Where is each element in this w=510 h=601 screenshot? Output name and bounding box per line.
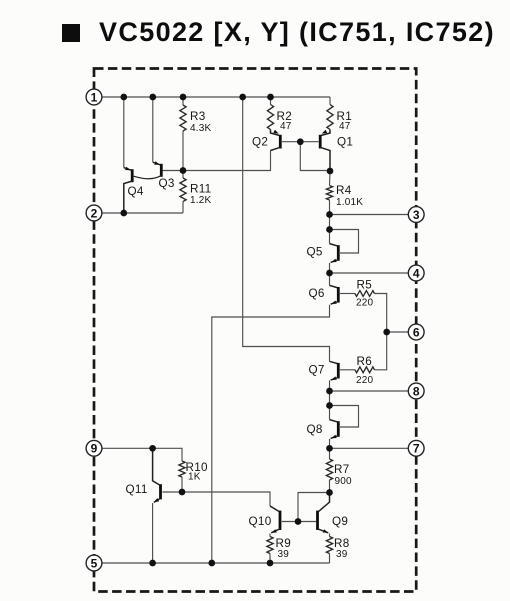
node VCC/Q3 emitter bbox=[149, 94, 156, 101]
wire VCC rail from pin 1 to R1 top bbox=[101, 96, 330, 98]
svg-text:Q4: Q4 bbox=[128, 185, 144, 198]
pin 8 bbox=[408, 383, 424, 399]
svg-text:Q3: Q3 bbox=[159, 177, 175, 190]
label Q7 bbox=[309, 364, 325, 377]
resistor R9 bbox=[267, 537, 273, 564]
node Q1 collector-base/R4 top bbox=[327, 168, 334, 175]
svg-text:3: 3 bbox=[413, 208, 420, 222]
svg-text:R3: R3 bbox=[190, 110, 206, 123]
transistor Q11 bbox=[153, 448, 161, 563]
resistor R2 bbox=[267, 97, 273, 130]
pin 5 bbox=[86, 555, 102, 571]
pin 7 bbox=[408, 440, 424, 456]
wire pin4 node to Q6 bbox=[329, 273, 331, 285]
pin 9 bbox=[86, 440, 102, 456]
node GND / Q6 emitter drop bbox=[208, 560, 215, 567]
wire VCC drop to Q7 collector bbox=[243, 97, 330, 361]
node VCC/Q4 emitter bbox=[120, 94, 127, 101]
label R4 1.01K bbox=[336, 184, 363, 208]
label R7 900 bbox=[334, 463, 352, 487]
wire Q5 collector-base loop bbox=[330, 230, 359, 254]
resistor R10 bbox=[179, 461, 185, 492]
svg-text:Q8: Q8 bbox=[307, 423, 323, 436]
wire R5/R6 junction to pin 6 bbox=[387, 331, 408, 333]
IC package boundary (dashed) bbox=[94, 69, 416, 592]
resistor R8 bbox=[326, 537, 332, 564]
node pin 6 / R5-R6 junction bbox=[383, 329, 390, 336]
svg-text:4: 4 bbox=[413, 266, 420, 280]
title VC5022 bbox=[62, 17, 495, 48]
svg-text:Q10: Q10 bbox=[249, 515, 272, 528]
resistor R11 bbox=[180, 171, 186, 214]
node GND / Q11 emitter bbox=[149, 560, 156, 567]
node VCC/R3 top bbox=[180, 94, 187, 101]
node A (R3/R11/Q3 base/Q2 collector) bbox=[180, 167, 187, 174]
wire node pin3 to Q5 bbox=[329, 215, 331, 244]
svg-text:R7: R7 bbox=[334, 463, 350, 476]
label R9 39 bbox=[276, 537, 292, 560]
wire R7 bottom to Q9/Q10 base rail bbox=[298, 493, 330, 522]
label Q6 bbox=[309, 287, 325, 300]
transistor Q6 bbox=[330, 285, 339, 304]
resistor R4 bbox=[326, 171, 332, 215]
label Q2 bbox=[252, 135, 268, 148]
svg-text:220: 220 bbox=[356, 298, 374, 309]
wire R5 right end down to pin6 node bbox=[375, 294, 387, 333]
wire Q2 collector to node A bbox=[183, 150, 271, 170]
wire Q1 base to node bbox=[300, 141, 318, 143]
wire pin 9 rail to R10 top bbox=[101, 448, 182, 461]
resistor R3 bbox=[180, 97, 186, 171]
node Q9-Q10 bases bbox=[295, 518, 302, 525]
label R3 4.3K bbox=[190, 110, 212, 134]
svg-text:47: 47 bbox=[339, 121, 351, 132]
wire Q3 base to node A bbox=[163, 170, 183, 172]
svg-text:R9: R9 bbox=[276, 537, 292, 550]
resistor R7 bbox=[326, 448, 332, 492]
svg-text:Q9: Q9 bbox=[332, 515, 348, 528]
svg-text:220: 220 bbox=[356, 375, 374, 386]
label Q1 bbox=[337, 135, 353, 148]
transistor Q8 bbox=[330, 420, 339, 449]
label Q11 bbox=[126, 483, 148, 496]
wire Q9/Q10 base rail bbox=[282, 521, 316, 523]
label Q3 bbox=[159, 177, 175, 190]
wire Q2 base to node bbox=[282, 141, 300, 143]
transistor Q3 bbox=[134, 97, 162, 179]
label Q9 bbox=[332, 515, 348, 528]
wire pin6 node down to R6 bbox=[375, 332, 387, 370]
svg-text:1.01K: 1.01K bbox=[336, 197, 363, 208]
transistor Q7 bbox=[330, 361, 339, 391]
svg-text:R5: R5 bbox=[357, 278, 373, 291]
svg-text:9: 9 bbox=[91, 442, 98, 456]
label Q4 bbox=[128, 185, 144, 198]
transistor Q1 bbox=[320, 130, 330, 172]
wire ground rail pin 5 to R8 bottom bbox=[101, 562, 330, 564]
node R10 bottom / Q11 base bbox=[179, 489, 186, 496]
label R2 47 bbox=[277, 110, 293, 132]
svg-text:39: 39 bbox=[336, 549, 348, 560]
resistor R5 bbox=[355, 291, 375, 297]
svg-text:2: 2 bbox=[91, 206, 98, 220]
wire Q8 emitter node to pin 7 bbox=[330, 447, 409, 449]
transistor Q4 bbox=[124, 97, 132, 213]
pin 6 bbox=[408, 324, 424, 340]
svg-text:Q6: Q6 bbox=[309, 287, 325, 300]
label Q10 bbox=[249, 515, 272, 528]
svg-text:8: 8 bbox=[413, 384, 420, 398]
label R6 220 bbox=[356, 355, 374, 386]
label R8 39 bbox=[334, 537, 350, 560]
resistor R6 bbox=[355, 367, 375, 373]
svg-text:R6: R6 bbox=[357, 355, 373, 368]
node VCC/R2 top bbox=[267, 94, 274, 101]
label R10 1K bbox=[186, 461, 209, 483]
svg-text:1: 1 bbox=[91, 90, 98, 104]
node Q5 collector-base bbox=[326, 226, 333, 233]
svg-text:R4: R4 bbox=[336, 184, 352, 197]
svg-text:R11: R11 bbox=[190, 182, 211, 195]
transistor Q9 bbox=[318, 493, 330, 537]
pin 3 bbox=[408, 207, 424, 223]
transistor Q10 bbox=[270, 506, 280, 537]
pin 4 bbox=[408, 265, 424, 281]
node Q1-Q2 bases bbox=[297, 138, 304, 145]
label Q8 bbox=[307, 423, 323, 436]
node VCC/Q7 drop bbox=[239, 94, 246, 101]
svg-text:5: 5 bbox=[91, 556, 98, 570]
wire Q6 base to R5 bbox=[340, 293, 355, 295]
svg-text:39: 39 bbox=[278, 549, 290, 560]
svg-text:900: 900 bbox=[335, 476, 353, 487]
label Q5 bbox=[307, 246, 323, 259]
pin 1 bbox=[86, 89, 102, 105]
svg-text:Q11: Q11 bbox=[126, 483, 148, 496]
wire node R4 bottom to pin 3 bbox=[330, 214, 409, 216]
node pin 9 / Q11 collector bbox=[149, 445, 156, 452]
resistor R1 bbox=[327, 97, 333, 130]
label R11 1.2K bbox=[190, 182, 212, 206]
node pin 8 / Q7 emitter bbox=[326, 388, 333, 395]
wire Q7 base to R6 bbox=[340, 369, 355, 371]
svg-text:7: 7 bbox=[413, 442, 420, 456]
node pin 3 / R4 bottom bbox=[326, 211, 333, 218]
wire Q5 emitter node to pin 4 bbox=[330, 272, 409, 274]
svg-text:1K: 1K bbox=[188, 472, 201, 483]
wire Q2/Q1 base node to Q1 collector bbox=[300, 142, 330, 171]
wire Q8 collector-base loop bbox=[330, 406, 359, 428]
label R1 47 bbox=[337, 110, 353, 132]
svg-text:Q5: Q5 bbox=[307, 246, 323, 259]
svg-text:Q2: Q2 bbox=[252, 135, 268, 148]
wire Q11 base / R10 bottom to Q10 collector bbox=[162, 492, 270, 506]
svg-text:1.2K: 1.2K bbox=[190, 195, 212, 206]
node Q8 collector-base bbox=[326, 402, 333, 409]
wire pin 2 rail to R11 bottom bbox=[101, 212, 183, 214]
svg-text:Q1: Q1 bbox=[337, 135, 353, 148]
svg-text:Q7: Q7 bbox=[309, 364, 325, 377]
svg-text:47: 47 bbox=[280, 121, 292, 132]
wire Q7 emitter node to pin 8 bbox=[330, 390, 409, 392]
node pin2/Q4 collector bbox=[120, 210, 127, 217]
svg-text:R8: R8 bbox=[334, 537, 350, 550]
transistor Q2 bbox=[271, 130, 281, 151]
node R7 bottom / Q9 collector bbox=[326, 489, 333, 496]
node pin 7 / Q8 emitter bbox=[326, 445, 333, 452]
svg-text:6: 6 bbox=[413, 325, 420, 339]
label R5 220 bbox=[356, 278, 374, 308]
node pin 4 / Q5 emitter bbox=[326, 270, 333, 277]
node GND / R9 bottom bbox=[267, 560, 274, 567]
wire pin8 node to Q8 bbox=[329, 391, 331, 420]
pin 2 bbox=[86, 205, 102, 221]
svg-text:4.3K: 4.3K bbox=[190, 123, 212, 134]
transistor Q5 bbox=[330, 244, 339, 273]
wire Q6 emitter to ground rail bbox=[212, 305, 330, 563]
